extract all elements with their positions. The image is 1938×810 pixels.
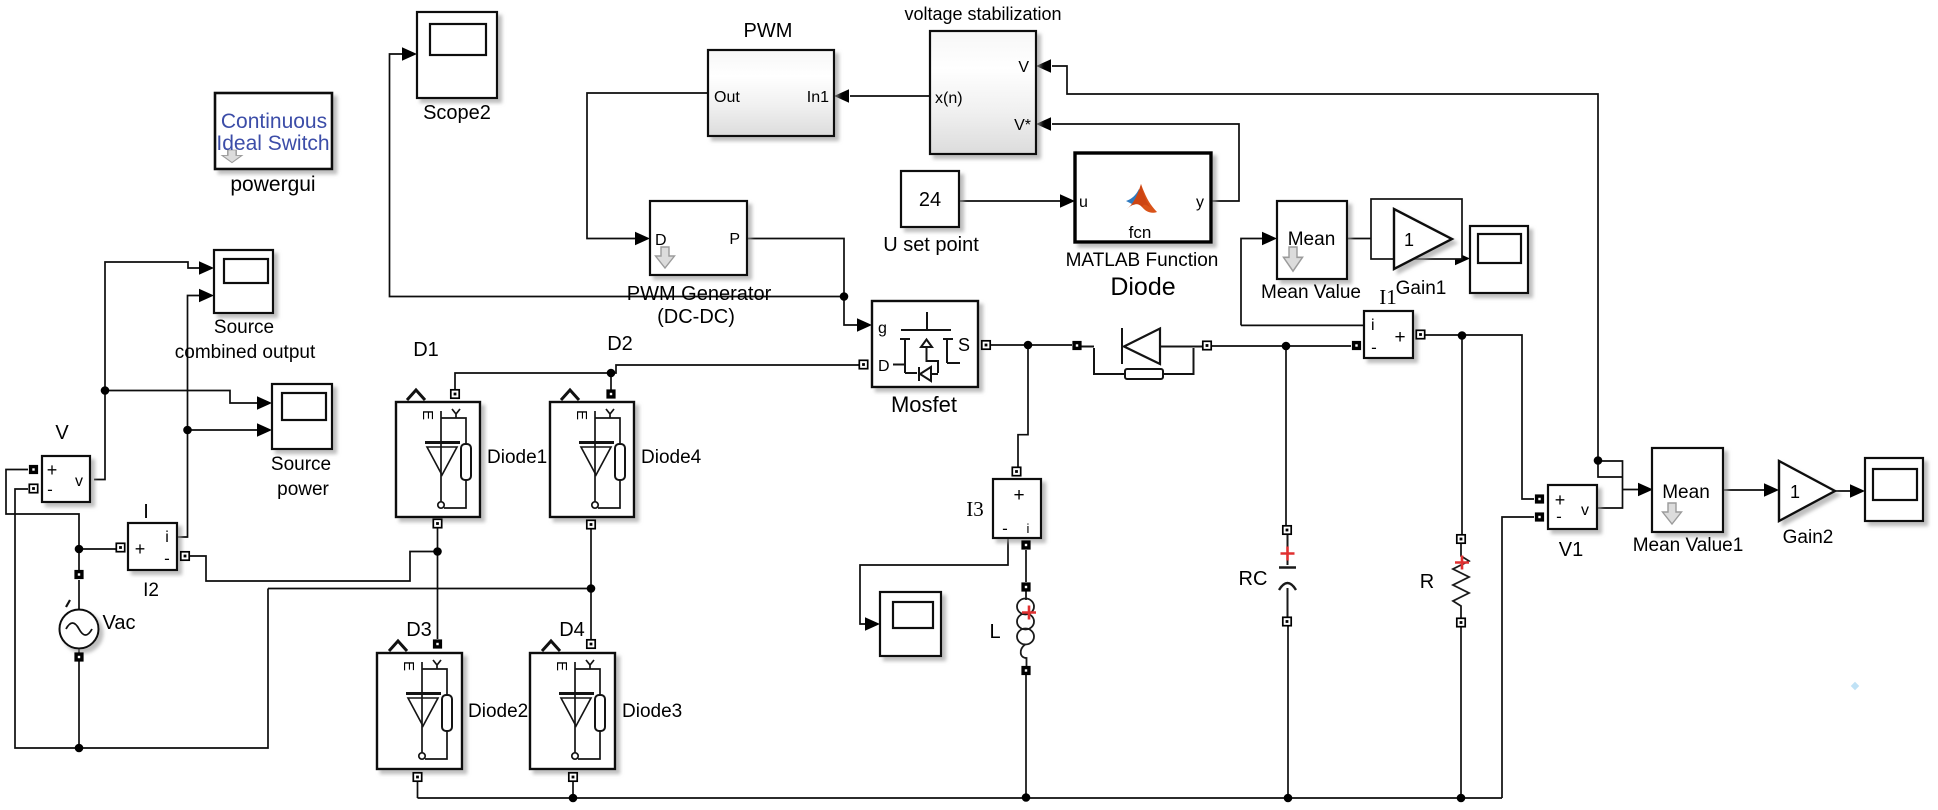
svg-text:+: + xyxy=(1394,327,1405,348)
svg-text:V*: V* xyxy=(1014,117,1031,134)
svg-text:i: i xyxy=(1027,521,1030,536)
svg-text:Diode4: Diode4 xyxy=(641,447,702,468)
svg-text:+: + xyxy=(135,539,146,559)
svg-text:Diode1: Diode1 xyxy=(487,447,547,468)
svg-text:power: power xyxy=(277,479,329,500)
svg-text:RC: RC xyxy=(1239,568,1268,590)
svg-text:Mean Value: Mean Value xyxy=(1261,282,1361,303)
svg-text:Source: Source xyxy=(271,454,331,475)
svg-text:fcn: fcn xyxy=(1129,223,1152,242)
svg-text:D: D xyxy=(655,232,667,249)
svg-text:-: - xyxy=(47,480,53,499)
svg-text:1: 1 xyxy=(1404,230,1414,250)
svg-text:v: v xyxy=(1581,502,1589,519)
svg-text:(DC-DC): (DC-DC) xyxy=(657,306,735,328)
svg-text:E: E xyxy=(400,661,417,671)
svg-text:MATLAB Function: MATLAB Function xyxy=(1066,250,1219,271)
svg-text:Out: Out xyxy=(714,89,740,106)
svg-text:Source: Source xyxy=(214,317,274,338)
svg-text:-: - xyxy=(164,549,170,568)
svg-text:-: - xyxy=(1556,507,1562,526)
svg-text:I3: I3 xyxy=(966,497,984,521)
svg-text:I: I xyxy=(143,501,149,523)
svg-text:Gain2: Gain2 xyxy=(1783,527,1834,548)
svg-text:g: g xyxy=(878,320,887,337)
svg-text:PWM: PWM xyxy=(744,20,793,42)
svg-text:D3: D3 xyxy=(406,619,432,641)
svg-text:U set point: U set point xyxy=(883,234,979,256)
svg-text:D: D xyxy=(878,358,890,375)
svg-text:D4: D4 xyxy=(559,619,585,641)
svg-text:L: L xyxy=(989,621,1000,643)
svg-text:V1: V1 xyxy=(1559,539,1583,561)
svg-text:R: R xyxy=(1420,571,1434,593)
svg-text:Scope2: Scope2 xyxy=(423,102,491,124)
svg-text:Continuous: Continuous xyxy=(221,110,327,133)
svg-text:Ideal Switch: Ideal Switch xyxy=(216,132,329,155)
svg-text:voltage stabilization: voltage stabilization xyxy=(904,4,1061,24)
svg-text:Gain1: Gain1 xyxy=(1396,278,1447,299)
svg-text:combined output: combined output xyxy=(175,342,316,363)
svg-text:y: y xyxy=(1196,194,1204,211)
svg-text:S: S xyxy=(958,335,970,355)
svg-text:v: v xyxy=(75,473,83,490)
svg-text:-: - xyxy=(1371,338,1377,357)
svg-text:u: u xyxy=(1079,194,1088,211)
svg-text:i: i xyxy=(165,529,169,546)
svg-text:1: 1 xyxy=(1790,482,1800,502)
svg-text:Mean: Mean xyxy=(1288,229,1336,250)
svg-text:Diode: Diode xyxy=(1110,273,1175,301)
svg-text:E: E xyxy=(553,661,570,671)
svg-text:V: V xyxy=(1018,59,1029,76)
svg-text:I2: I2 xyxy=(143,580,159,601)
svg-text:Diode3: Diode3 xyxy=(622,701,682,722)
svg-text:Diode2: Diode2 xyxy=(468,701,528,722)
svg-text:D2: D2 xyxy=(607,333,633,355)
svg-text:V: V xyxy=(55,422,69,444)
svg-text:PWM Generator: PWM Generator xyxy=(627,283,772,305)
svg-text:P: P xyxy=(729,231,740,248)
svg-text:i: i xyxy=(1371,317,1375,334)
svg-text:Mean: Mean xyxy=(1662,482,1710,503)
svg-text:+: + xyxy=(1013,485,1024,506)
svg-text:I1: I1 xyxy=(1379,285,1397,309)
svg-text:powergui: powergui xyxy=(230,173,315,196)
svg-text:x(n): x(n) xyxy=(935,90,963,107)
svg-text:E: E xyxy=(573,410,590,420)
svg-text:In1: In1 xyxy=(807,89,829,106)
svg-text:24: 24 xyxy=(919,189,941,211)
svg-text:Mean Value1: Mean Value1 xyxy=(1633,535,1744,556)
svg-text:E: E xyxy=(419,410,436,420)
svg-text:-: - xyxy=(1002,519,1008,538)
svg-text:Mosfet: Mosfet xyxy=(891,392,957,417)
svg-text:Vac: Vac xyxy=(103,612,136,634)
svg-text:D1: D1 xyxy=(413,339,439,361)
svg-text:+: + xyxy=(47,460,58,480)
